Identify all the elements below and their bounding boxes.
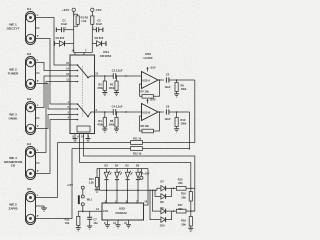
wire rail left end	[99, 169, 101, 191]
resistor R12	[131, 147, 190, 156]
pin 6 stub and ground	[86, 134, 91, 142]
output wire op-amp B	[158, 111, 164, 113]
resistor R3	[97, 76, 106, 91]
power terminal +15V button	[67, 183, 85, 195]
diode D9	[160, 206, 173, 214]
wire US3 output drops	[107, 190, 139, 203]
connector G3 socket	[26, 102, 36, 135]
LED D3	[104, 163, 111, 191]
pin 1	[68, 100, 79, 105]
resistor R2	[91, 16, 94, 53]
label US1 CD4052	[100, 50, 112, 58]
label US2 LF353	[144, 52, 153, 60]
node D7 D8	[173, 188, 175, 190]
pin 5	[68, 105, 79, 110]
resistor R10	[175, 112, 187, 127]
node after C4	[125, 111, 127, 113]
pin 11	[66, 78, 78, 83]
op-amp US2-A	[142, 72, 159, 89]
capacitor C1	[56, 19, 73, 33]
pin 9 wire down	[77, 134, 191, 188]
wire C6 to right	[169, 111, 190, 113]
label WE 5 ZAPIS	[8, 203, 17, 211]
power terminal +15V top	[62, 8, 75, 16]
zener diode D2	[92, 36, 106, 46]
connector G2 socket	[26, 57, 36, 90]
resistor R6	[109, 111, 118, 127]
ground under R10	[174, 127, 179, 133]
power terminal -15V top	[91, 8, 103, 16]
ground under R4	[102, 127, 107, 132]
wire to diode D10	[149, 190, 161, 220]
record bus wire lower	[72, 148, 131, 150]
wire output B down right side	[189, 112, 191, 150]
shield stub G3	[35, 117, 39, 119]
wire G5 P	[35, 149, 72, 219]
switch lever B	[78, 104, 95, 117]
resistor R16	[181, 188, 192, 211]
wire button to clock node	[78, 206, 102, 212]
node R17 output	[190, 210, 192, 212]
ground under C7	[87, 226, 92, 229]
wire US1 pin3 to op-amp B	[95, 111, 142, 113]
LED D4	[115, 163, 122, 191]
connector G4 socket	[26, 147, 36, 180]
ground under R13	[76, 226, 81, 231]
LED D5	[125, 163, 132, 191]
pin 10 wire down	[81, 134, 195, 212]
capacitor C4	[112, 104, 123, 115]
wire G2 P	[35, 84, 70, 110]
capacitor C3	[112, 68, 123, 79]
node R9	[176, 79, 178, 81]
power +15V for US2-A	[147, 66, 156, 72]
label WE 1 ODCZYT	[7, 23, 20, 31]
wire to diode D9	[152, 190, 161, 212]
wire to diode D8	[154, 190, 161, 197]
diode D10	[160, 211, 172, 227]
wire stubs to contacts A	[70, 65, 78, 82]
power +15V for US2-B	[147, 98, 156, 104]
capacitor C2	[92, 19, 103, 33]
wire G4 P	[35, 120, 70, 174]
wire supply to US1 top pins	[74, 53, 93, 56]
connector G5 socket	[26, 192, 36, 225]
ground under R3	[102, 91, 107, 96]
shield stub G1	[35, 27, 39, 29]
label R1 R2 1,2k	[81, 15, 89, 22]
ground under R18	[188, 226, 193, 232]
pin 8 stub and ground	[72, 134, 77, 142]
pin 12	[66, 72, 78, 77]
control block inside US1	[77, 126, 90, 132]
feedback resistor R8	[140, 112, 160, 133]
wire G1 P	[35, 39, 70, 105]
label WE 2 TUNER	[8, 68, 19, 76]
US3 pin 16 supply	[144, 169, 149, 206]
switch lever A	[78, 65, 95, 78]
wire G1 L	[35, 18, 70, 66]
wire G5 L	[35, 143, 58, 198]
node R10	[176, 111, 178, 113]
resistor R9	[175, 80, 187, 92]
wire output A down right side	[194, 80, 196, 143]
resistor R11	[131, 137, 195, 145]
resistor R15	[174, 178, 195, 191]
wire G2 L	[35, 63, 70, 71]
record bus wire upper	[58, 142, 131, 144]
power terminal +15V LED rail	[140, 169, 150, 180]
node after C3	[125, 75, 127, 77]
push button WL1	[78, 195, 93, 206]
ground under R9	[174, 92, 179, 98]
resistor R18	[181, 211, 192, 226]
node on pin13 wire	[104, 75, 106, 77]
pin 4	[68, 116, 79, 121]
resistor R17	[174, 203, 195, 213]
shield stub G4	[35, 162, 39, 164]
ground under R14	[95, 187, 100, 193]
resistor R4	[97, 112, 106, 127]
diode D8	[160, 188, 171, 204]
node output A	[159, 79, 161, 81]
US3 bottom pin 15 with ground	[124, 220, 131, 228]
ground at G5 shield	[36, 206, 48, 211]
pin 14	[66, 67, 78, 72]
connector G1 socket	[26, 12, 36, 45]
capacitor C7	[87, 211, 98, 226]
shield stub G2	[35, 72, 39, 74]
LED D6	[136, 163, 143, 191]
resistor R1	[74, 12, 80, 53]
capacitor C6	[164, 105, 170, 122]
capacitor C5	[164, 73, 170, 90]
node output B	[159, 111, 161, 113]
output wire op-amp A	[158, 79, 164, 81]
LED supply rail	[97, 169, 148, 173]
node R15 output	[190, 188, 192, 190]
diode D7	[157, 180, 174, 192]
US3 top pin labels 2 1 3 7	[105, 199, 139, 203]
ground under R6	[114, 127, 119, 132]
wire G3 P	[35, 115, 70, 129]
node on pin3 wire	[104, 111, 106, 113]
wire G4 L	[35, 82, 70, 153]
pin 2	[68, 111, 79, 116]
node D9 D10	[173, 210, 175, 212]
resistor R13	[65, 211, 80, 225]
zener diode D1	[54, 36, 73, 46]
label WE 4 GRAMOFON CD	[4, 156, 23, 168]
op-amp US1 multiplexer CD4052 box	[70, 55, 95, 134]
wire C5 to right	[169, 79, 195, 81]
resistor R5	[109, 75, 118, 90]
resistor R14	[89, 169, 99, 188]
feedback resistor R7	[140, 80, 160, 98]
LED cathode bus	[100, 189, 158, 191]
pin 15	[66, 61, 78, 66]
US3 bottom pin 13 with ground	[113, 220, 120, 228]
wire G3 L	[35, 76, 70, 108]
wire US1 pin13 to op-amp A	[95, 75, 142, 77]
op-amp US2-B	[142, 104, 159, 121]
wire stubs to contacts B	[70, 104, 78, 120]
US3 bottom pin 8 with ground	[104, 220, 110, 228]
counter US3 CD4022 box	[102, 203, 144, 220]
ground under R5	[114, 91, 119, 96]
label WE 3 UNIW	[9, 113, 18, 121]
